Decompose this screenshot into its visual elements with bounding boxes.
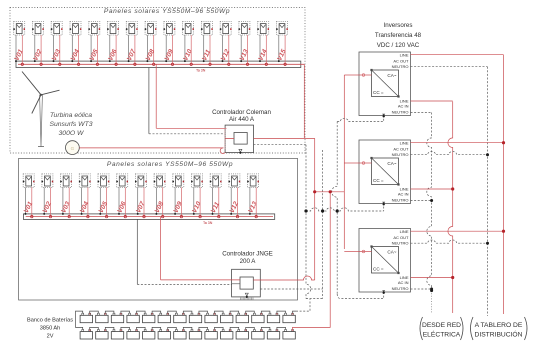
wire: series link B2-04 to B2-05 xyxy=(137,327,146,329)
wire: PV1-08 positive lead xyxy=(153,35,155,64)
wire: red positive rail of bus 2 xyxy=(26,216,273,218)
wire: PV2-04 positive lead xyxy=(87,187,89,216)
wire: series link B1-13 to B1-14 xyxy=(277,311,286,313)
node: PV1-01 positive on red rail xyxy=(21,63,23,65)
wire: PV1-03 negative lead xyxy=(53,35,55,61)
node: negative junction (JNGE) xyxy=(321,209,324,212)
node: PV2-03 positive on red rail xyxy=(68,215,70,217)
wire: bus2 negative drop xyxy=(136,219,138,284)
svg-text:NEUTRO: NEUTRO xyxy=(392,64,409,69)
wire: PV2-06 negative lead xyxy=(118,187,120,214)
node: PV2-13 negative on bus xyxy=(249,213,251,215)
pin: Coleman ground pin xyxy=(239,149,242,152)
wire: inverter negative trunk (dashed, x=337.2) with hop over red bus xyxy=(332,122,338,295)
wire: PV1-13 negative lead xyxy=(240,35,242,61)
enclosure box: top PV array + wind turbine xyxy=(10,8,305,154)
wire: PV2-13 negative lead xyxy=(249,187,251,214)
pin: inverter U4 DC- bottom xyxy=(382,290,385,292)
wire: turbine positive feed to Coleman xyxy=(79,147,223,149)
solar panel PV1-05 xyxy=(88,22,100,36)
wire: PV2-08 positive lead xyxy=(162,187,164,216)
wire: PV2-04 negative lead xyxy=(81,187,83,214)
wire: negative feed to JNGE (dashed) xyxy=(137,283,231,285)
solar panel PV2-11 xyxy=(210,174,222,188)
svg-text:Paneles solares YS550M–96 5: Paneles solares YS550M–96 550Wp xyxy=(104,8,230,15)
pin: JNGE ground pin xyxy=(246,296,248,298)
wire: PV1-14 negative lead xyxy=(259,35,261,61)
wire: DC+ feed to inverter U4 xyxy=(344,251,359,253)
wire: U3 AC IN line xyxy=(411,188,453,190)
node: PV1-01 negative on bus xyxy=(15,60,17,62)
wire: PV1-04 positive lead xyxy=(78,35,80,64)
node: PV1-08 positive on red rail xyxy=(153,63,155,65)
battery B1-05 xyxy=(143,313,155,322)
wire: PV2-09 positive lead xyxy=(180,187,182,216)
wire: battery bank negative tap (row1 right, dashed) xyxy=(293,311,297,313)
wire: series link B2-13 to B2-14 xyxy=(277,327,286,329)
wire: DC+ feed to inverter U3 xyxy=(344,162,359,164)
node: PV1-15 positive on red rail xyxy=(284,63,286,65)
wire: PV2-05 positive lead xyxy=(106,187,108,216)
wire: U2 AC OUT neutral xyxy=(411,66,488,68)
svg-text:LINE: LINE xyxy=(400,141,409,146)
node: PV1-07 positive on red rail xyxy=(134,63,136,65)
node: PV2-10 positive on red rail xyxy=(199,215,201,217)
wire: series link B2-12 to B2-13 xyxy=(261,327,270,329)
wire: Coleman positive trunk (red, x=314.7) xyxy=(314,138,316,280)
wire: PV1-10 negative lead xyxy=(184,35,186,61)
svg-text:CA~: CA~ xyxy=(387,161,396,166)
wire: series link B1-07 to B1-08 xyxy=(183,311,192,313)
node: U4 AC IN line junction xyxy=(451,276,454,279)
node: PV1-10 negative on bus xyxy=(184,60,186,62)
solar panel PV1-02 xyxy=(32,22,44,36)
node: PV1-04 positive on red rail xyxy=(77,63,79,65)
wire: U3 AC OUT neutral with hops xyxy=(411,152,488,155)
battery B2-10 xyxy=(221,330,233,340)
wire: series link B2-01 to B2-02 xyxy=(90,327,99,329)
solar panel PV2-12 xyxy=(228,174,240,188)
node: PV2-06 negative on bus xyxy=(118,213,120,215)
svg-text:NEUTRO: NEUTRO xyxy=(392,109,409,114)
svg-text:Ta 3N: Ta 3N xyxy=(196,69,206,73)
node: U3 AC IN line junction xyxy=(451,187,454,190)
svg-text:NEUTRO: NEUTRO xyxy=(392,286,409,291)
wire: AC OUT neutral trunk (dashed, x=487.5) xyxy=(487,67,489,316)
wire: PV1-06 positive lead xyxy=(115,35,117,64)
wire: series link B2-02 to B2-03 xyxy=(105,327,114,329)
svg-text:Controlador JNGE: Controlador JNGE xyxy=(222,251,273,258)
node: PV2-13 positive on red rail xyxy=(255,215,257,217)
wire: series link B2-03 to B2-04 xyxy=(121,327,130,329)
wire: battery bank positive tap (row2 right, red) xyxy=(293,192,331,330)
wire: PV1-04 negative lead xyxy=(71,35,73,61)
wire: series link B1-08 to B1-09 xyxy=(199,311,208,313)
wire: PV2-05 negative lead xyxy=(99,187,101,214)
node: PV2-11 positive on red rail xyxy=(218,215,220,217)
node: PV2-09 negative on bus xyxy=(174,213,176,215)
wire: PV2-12 negative lead xyxy=(230,187,232,214)
wire: PV2-07 negative lead xyxy=(137,187,139,214)
node: PV2-02 negative on bus xyxy=(43,213,45,215)
wire: series link B1-03 to B1-04 xyxy=(121,311,130,313)
wire: bus1 positive drop xyxy=(155,64,157,128)
wire: PV2-07 positive lead xyxy=(143,187,145,216)
svg-text:A TABLERO DE: A TABLERO DE xyxy=(475,322,523,329)
controller U2 JNGE 200A xyxy=(232,269,261,297)
wire: series link B2-06 to B2-07 xyxy=(168,327,177,329)
wire: AC IN line trunk (red, x=452.7) with hops xyxy=(448,102,453,314)
solar panel PV2-01 xyxy=(23,174,35,188)
wire: PV1-12 positive lead xyxy=(228,35,230,64)
battery B2-14 xyxy=(283,330,295,340)
wire: series link B2-05 to B2-06 xyxy=(152,327,161,329)
svg-text:AC IN: AC IN xyxy=(398,192,409,197)
node: PV1-08 negative on bus xyxy=(146,60,148,62)
node: PV1-13 positive on red rail xyxy=(246,63,248,65)
wire: AC OUT line trunk (red, x=503.5) xyxy=(503,55,505,314)
svg-text:NEUTRO: NEUTRO xyxy=(392,241,409,246)
node: negative junction (inverter trunk) xyxy=(336,209,339,212)
node: PV2-01 positive on red rail xyxy=(31,215,33,217)
svg-text:NEUTRO: NEUTRO xyxy=(392,152,409,157)
node: positive junction (Coleman trunk) xyxy=(313,190,316,193)
node: PV1-03 positive on red rail xyxy=(59,63,61,65)
solar panel PV1-10 xyxy=(182,22,194,36)
battery B2-13 xyxy=(267,330,279,340)
label: DESDE RED ELECTRICA xyxy=(420,317,423,340)
wire: PV2-12 positive lead xyxy=(237,187,239,216)
battery B2-08 xyxy=(189,330,201,340)
enclosure box: second PV array xyxy=(19,158,298,300)
battery B1-06 xyxy=(158,313,170,322)
wire: U2 AC IN line xyxy=(411,100,453,102)
wire: series link B1-10 to B1-11 xyxy=(230,311,239,313)
wire: red positive rail of bus 1 xyxy=(18,63,304,65)
wire: PV1-05 positive lead xyxy=(96,35,98,64)
wire: series link row1 to row2 (left end) xyxy=(76,311,83,329)
node: PV1-09 positive on red rail xyxy=(171,63,173,65)
pin: inverter U2 DC+ input xyxy=(359,74,372,76)
wire: series link B2-11 to B2-12 xyxy=(246,327,255,329)
node: PV2-12 negative on bus xyxy=(230,213,232,215)
battery B2-06 xyxy=(158,330,170,340)
svg-text:AC IN: AC IN xyxy=(398,104,409,109)
wire: PV2-01 negative lead xyxy=(25,187,27,214)
wire: inverter positive feeder (red, x=344.3) xyxy=(343,75,345,249)
battery B1-02 xyxy=(96,313,108,322)
node: U3 AC OUT neutral junction xyxy=(486,153,489,156)
wire: PV1-15 negative lead xyxy=(278,35,280,61)
wire: DC+ feed to inverter U2 xyxy=(344,74,359,76)
svg-text:3850 Ah: 3850 Ah xyxy=(40,326,61,332)
wire: PV2-03 positive lead xyxy=(68,187,70,216)
solar panel PV1-06 xyxy=(107,22,119,36)
wire: PV1-11 positive lead xyxy=(209,35,211,64)
node: PV1-12 positive on red rail xyxy=(228,63,230,65)
svg-text:CA~: CA~ xyxy=(387,250,396,255)
battery B2-03 xyxy=(111,330,123,340)
battery B1-10 xyxy=(221,313,233,322)
battery B1-09 xyxy=(205,313,217,322)
node: PV1-07 negative on bus xyxy=(128,60,130,62)
wire: bus2 positive drop xyxy=(160,217,162,280)
wire: PV2-11 negative lead xyxy=(212,187,214,214)
wire: PV2-02 negative lead xyxy=(43,187,45,214)
wire: bus1 negative drop xyxy=(148,68,150,134)
svg-text:AC IN: AC IN xyxy=(398,280,409,285)
solar panel PV1-04 xyxy=(70,22,82,36)
wire: series link B2-08 to B2-09 xyxy=(199,327,208,329)
wire: PV1-13 positive lead xyxy=(247,35,249,64)
wire: series link B2-10 to B2-11 xyxy=(230,327,239,329)
wire: inverter 2 negative stub xyxy=(383,207,385,212)
battery B2-09 xyxy=(205,330,217,340)
battery B1-13 xyxy=(267,313,279,322)
wire: PV1-09 positive lead xyxy=(172,35,174,64)
node: PV2-07 negative on bus xyxy=(137,213,139,215)
wire: JNGE negative trunk (dashed, x=322.6) xyxy=(322,150,324,299)
wire: PV1-07 negative lead xyxy=(128,35,130,61)
wire: PV1-07 positive lead xyxy=(134,35,136,64)
node: PV1-03 negative on bus xyxy=(53,60,55,62)
solar panel PV1-15 xyxy=(276,22,288,36)
solar panel PV2-08 xyxy=(154,174,166,188)
node: PV2-08 negative on bus xyxy=(155,213,157,215)
wire: inverter 1 negative return (dashed, y=121.5) xyxy=(337,116,384,122)
solar panel PV2-02 xyxy=(41,174,53,188)
inverter U4 xyxy=(359,229,411,294)
wire: U3 AC IN neutral xyxy=(411,200,432,202)
wire: bus1 positive feed to Coleman xyxy=(156,127,225,129)
node: PV2-01 negative on bus xyxy=(25,213,27,215)
svg-text:LINE: LINE xyxy=(400,53,409,58)
wire: PV2-13 positive lead xyxy=(255,187,257,216)
svg-text:AC OUT: AC OUT xyxy=(393,59,409,64)
wire: JNGE negative output (dashed) xyxy=(260,288,322,290)
node: PV2-05 negative on bus xyxy=(99,213,101,215)
inverter U2 xyxy=(359,52,411,118)
wire: U4 AC OUT line xyxy=(411,230,504,232)
wire: Coleman positive output (red) xyxy=(254,137,315,139)
solar panel PV2-07 xyxy=(135,174,147,188)
wire: negative jog to battery (dashed) xyxy=(306,298,323,300)
svg-text:AC OUT: AC OUT xyxy=(393,147,409,152)
node: PV1-14 positive on red rail xyxy=(265,63,267,65)
node: PV1-04 negative on bus xyxy=(71,60,73,62)
battery B2-04 xyxy=(127,330,139,340)
inverter U3 xyxy=(359,140,411,206)
wire: series link B1-02 to B1-03 xyxy=(105,311,114,313)
node: PV1-06 positive on red rail xyxy=(115,63,117,65)
battery B1-04 xyxy=(127,313,139,322)
wire: PV1-02 positive lead xyxy=(40,35,42,64)
solar panel PV1-08 xyxy=(145,22,157,36)
wire: PV1-12 negative lead xyxy=(222,35,224,61)
node: PV1-09 negative on bus xyxy=(165,60,167,62)
label: A TABLERO DE DISTRIBUCION xyxy=(471,317,474,340)
controller U1 Coleman Air 440A xyxy=(225,125,253,153)
battery B1-03 xyxy=(111,313,123,322)
wire: series link B2-09 to B2-10 xyxy=(215,327,224,329)
battery B2-07 xyxy=(174,330,186,340)
svg-text:Banco de Baterías: Banco de Baterías xyxy=(27,318,73,324)
wire: PV1-02 negative lead xyxy=(34,35,36,61)
node: PV1-11 positive on red rail xyxy=(209,63,211,65)
svg-text:DISTRIBUCIÓN: DISTRIBUCIÓN xyxy=(475,330,523,339)
wire: Coleman negative trunk (dashed, x=306) xyxy=(306,145,311,299)
wire: PV2-01 positive lead xyxy=(31,187,33,216)
wire: positive feed to JNGE xyxy=(161,279,240,281)
wire: DC positive bus (red, y=191.8) with hop over dashed trunk xyxy=(315,191,345,193)
battery B1-11 xyxy=(236,313,248,322)
wire: PV1-01 positive lead xyxy=(21,35,23,64)
battery B1-12 xyxy=(252,313,264,322)
wire: PV2-10 negative lead xyxy=(193,187,195,214)
wire: PV2-06 positive lead xyxy=(124,187,126,216)
solar panel PV1-12 xyxy=(220,22,232,36)
node: PV1-06 negative on bus xyxy=(109,60,111,62)
wire: U4 AC OUT neutral with hops xyxy=(411,240,488,243)
wire: PV1-09 negative lead xyxy=(165,35,167,61)
battery B1-01 xyxy=(80,313,92,322)
node: positive junction (battery trunk) xyxy=(329,190,332,193)
battery B1-07 xyxy=(174,313,186,322)
solar panel PV1-09 xyxy=(163,22,175,36)
wire: DC negative bus (dashed, y=211) with hops over red lines xyxy=(306,208,384,211)
node: PV1-14 negative on bus xyxy=(259,60,261,62)
node: PV2-05 positive on red rail xyxy=(105,215,107,217)
wire: PV1-01 negative lead xyxy=(15,35,17,61)
svg-text:Transferencia 48: Transferencia 48 xyxy=(375,32,422,39)
wire: PV2-08 negative lead xyxy=(155,187,157,214)
solar panel PV1-03 xyxy=(51,22,63,36)
wire: Coleman negative output (dashed) xyxy=(254,144,307,146)
svg-text:DESDE RED: DESDE RED xyxy=(422,322,461,329)
node: PV1-02 negative on bus xyxy=(34,60,36,62)
solar panel PV1-01 xyxy=(13,22,25,36)
solar panel PV2-06 xyxy=(116,174,128,188)
wire: PV2-09 negative lead xyxy=(174,187,176,214)
pin: inverter U3 DC+ input xyxy=(359,162,372,164)
wire: U2 AC OUT line xyxy=(411,54,504,56)
wire: PV2-10 positive lead xyxy=(199,187,201,216)
svg-text:2V: 2V xyxy=(47,334,54,340)
node: PV2-04 negative on bus xyxy=(81,213,83,215)
wire: U3 AC OUT line xyxy=(411,142,504,144)
wire: PV1-15 positive lead xyxy=(284,35,286,64)
wire: PV1-03 positive lead xyxy=(59,35,61,64)
node: PV2-12 positive on red rail xyxy=(236,215,238,217)
node: PV2-07 positive on red rail xyxy=(143,215,145,217)
node: PV1-02 positive on red rail xyxy=(40,63,42,65)
bus bar (array 1 combiner) xyxy=(16,61,301,67)
svg-text:G: G xyxy=(71,146,75,151)
battery B2-02 xyxy=(96,330,108,340)
node: PV2-03 negative on bus xyxy=(62,213,64,215)
node: PV1-05 negative on bus xyxy=(90,60,92,62)
node: PV2-04 positive on red rail xyxy=(87,215,89,217)
node: PV2-06 positive on red rail xyxy=(124,215,126,217)
pin: inverter U2 DC- bottom xyxy=(382,114,385,116)
solar panel PV2-04 xyxy=(79,174,91,188)
battery B1-08 xyxy=(189,313,201,322)
battery B2-05 xyxy=(143,330,155,340)
wire: series link B1-04 to B1-05 xyxy=(137,311,146,313)
svg-text:VDC / 120 VAC: VDC / 120 VAC xyxy=(377,42,420,49)
svg-text:Inversores: Inversores xyxy=(384,22,413,29)
solar panel PV1-07 xyxy=(126,22,138,36)
node: PV1-13 negative on bus xyxy=(240,60,242,62)
svg-text:Air 440 A: Air 440 A xyxy=(229,116,255,123)
wire: PV1-05 negative lead xyxy=(90,35,92,61)
battery B1-14 xyxy=(283,313,295,322)
pin: inverter U4 DC+ input xyxy=(359,251,372,253)
wire: series link B1-12 to B1-13 xyxy=(261,311,270,313)
wire: PV2-02 positive lead xyxy=(50,187,52,216)
svg-text:CC =: CC = xyxy=(373,90,384,95)
wire: U4 AC IN neutral xyxy=(411,288,432,290)
node: PV1-15 negative on bus xyxy=(278,60,280,62)
wire: bus1 positive right-end drop xyxy=(303,64,305,138)
wire: series link B1-01 to B1-02 xyxy=(90,311,99,313)
node: PV2-09 positive on red rail xyxy=(180,215,182,217)
wire: series link B1-11 to B1-12 xyxy=(246,311,255,313)
svg-text:Paneles solares YS550M–96 5: Paneles solares YS550M–96 550Wp xyxy=(107,161,233,168)
svg-text:LINE: LINE xyxy=(400,229,409,234)
solar panel PV1-14 xyxy=(257,22,269,36)
wire: U2 AC IN neutral xyxy=(411,112,432,114)
node: U4 AC IN neutral junction xyxy=(430,288,433,291)
node: PV2-11 negative on bus xyxy=(212,213,214,215)
svg-text:300O W: 300O W xyxy=(59,130,85,137)
wire: PV1-08 negative lead xyxy=(146,35,148,61)
wire: PV1-11 negative lead xyxy=(203,35,205,61)
connector loop at Coleman input xyxy=(220,148,225,154)
battery B2-11 xyxy=(236,330,248,340)
wire: PV2-03 negative lead xyxy=(62,187,64,214)
wire: series link B1-05 to B1-06 xyxy=(152,311,161,313)
wire: JNGE positive output (red) with hop xyxy=(253,276,314,280)
node: U3 AC OUT line junction xyxy=(502,141,505,144)
pin: inverter U3 DC- bottom xyxy=(382,202,385,204)
wire: series link B1-06 to B1-07 xyxy=(168,311,177,313)
node: PV2-10 negative on bus xyxy=(193,213,195,215)
node: negative junction (Coleman) xyxy=(304,209,307,212)
wire: negative feed to Coleman (dashed) xyxy=(149,133,225,135)
wire: series link B1-09 to B1-10 xyxy=(215,311,224,313)
node: U3 AC IN neutral junction xyxy=(430,199,433,202)
svg-text:ELÉCTRICA: ELÉCTRICA xyxy=(423,330,461,339)
solar panel PV1-13 xyxy=(238,22,250,36)
solar panel PV1-11 xyxy=(201,22,213,36)
svg-text:Ta 3N: Ta 3N xyxy=(203,221,213,225)
node: PV2-02 positive on red rail xyxy=(49,215,51,217)
wire: U4 AC IN line xyxy=(411,277,453,279)
wire: inverter 3 negative return (dashed, y=298) xyxy=(337,294,384,299)
wire: PV1-10 positive lead xyxy=(190,35,192,64)
wire: AC IN neutral trunk (dashed, x=431.6) with hops xyxy=(427,113,432,291)
wire: PV1-06 negative lead xyxy=(109,35,111,61)
generator G of wind turbine xyxy=(66,141,80,155)
svg-text:AC OUT: AC OUT xyxy=(393,235,409,240)
svg-text:Turbina eólica: Turbina eólica xyxy=(50,112,92,119)
node: U4 AC OUT neutral junction xyxy=(486,242,489,245)
solar panel PV2-10 xyxy=(191,174,203,188)
svg-text:Sunsurfs WT3: Sunsurfs WT3 xyxy=(49,121,92,128)
battery B2-01 xyxy=(80,330,92,340)
node: PV1-10 positive on red rail xyxy=(190,63,192,65)
